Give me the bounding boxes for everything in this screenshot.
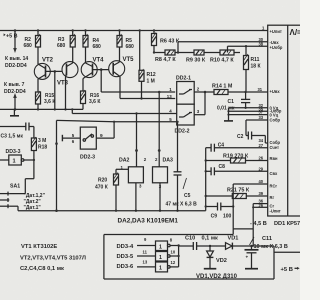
resistor R12	[139, 29, 156, 98]
capacitor C5	[166, 121, 198, 212]
IC DD1 pin numbers	[258, 26, 266, 208]
wire DD2-2 out riser	[194, 92, 205, 115]
inverter DD3-3	[0, 149, 35, 165]
wire VT2-VT3 base junction	[54, 70, 57, 109]
resistor R4	[83, 29, 101, 63]
wire W2 to DD2-1 pin13	[120, 97, 175, 99]
resistor R15	[36, 91, 57, 109]
resistor R10	[210, 50, 234, 63]
wire divider chain	[153, 51, 240, 53]
resistor R5	[117, 29, 134, 62]
capacitor C9	[205, 203, 235, 220]
sensor DA3	[153, 91, 173, 212]
transistor VT3	[57, 62, 78, 111]
wire -Uvh pin30 riser	[177, 42, 268, 54]
IC DD1 pin labels	[270, 29, 283, 214]
wire +5V output corner	[252, 246, 301, 279]
wire C4 group rail	[205, 148, 207, 211]
ground	[10, 109, 19, 115]
node Dat.2	[24, 199, 42, 205]
switch DD2-3	[62, 127, 103, 160]
inverter DD3-6	[117, 260, 179, 272]
capacitor C1	[217, 92, 250, 112]
resistor R6	[152, 29, 180, 52]
node +5V bottom label	[281, 267, 300, 273]
big box wire	[55, 120, 177, 210]
resistor R21	[206, 187, 268, 198]
resistor R16	[81, 90, 102, 109]
node Dat.1,2	[24, 193, 46, 199]
wire pin40	[233, 184, 268, 207]
label DA2,DA3 K1019EM1	[118, 217, 179, 224]
node K vyv.14 DD2-DD4 arrow	[5, 29, 28, 69]
resistor R14	[212, 83, 233, 94]
label C2,C4,C8 value	[20, 266, 64, 272]
wire DD3-3 to SA1	[9, 179, 34, 194]
switch DD2-1	[167, 76, 200, 105]
IC DD1 box	[268, 25, 302, 216]
transistor VT4	[81, 57, 109, 91]
node K vyv.7 DD2-DD4 arrow	[4, 82, 26, 111]
diode VD2	[204, 245, 227, 269]
wire DD3 output bus	[177, 244, 179, 267]
resistor R9	[186, 50, 206, 64]
transistor VT2	[34, 57, 62, 92]
wire DD2-1 out to pin31	[194, 91, 268, 94]
wire W3	[71, 108, 177, 115]
label VT2-VT5 type	[20, 255, 86, 261]
label VD1,VD2 D310	[196, 274, 238, 280]
capacitor C8	[206, 164, 268, 175]
resistor R11	[244, 46, 262, 91]
resistor R8	[155, 50, 176, 63]
resistor R3	[57, 29, 75, 63]
wire VT4-VT5 base junction	[100, 68, 103, 92]
resistor R20	[95, 169, 119, 210]
node Dat.1	[24, 205, 42, 211]
inverter DD3-5	[117, 249, 179, 261]
inverter DD3-4	[117, 237, 179, 251]
frame bottom box	[104, 229, 274, 279]
wire pin36	[253, 203, 268, 205]
label -4.5V and DD1 type	[250, 221, 314, 227]
wire pin32	[229, 107, 268, 109]
scan noise overlay	[0, 0, 1, 1]
switch SA1	[0, 183, 20, 208]
wire +5V top rail	[0, 30, 268, 32]
capacitor C11	[245, 236, 288, 269]
node +5V label	[2, 33, 18, 39]
wire +Uobr pin38	[228, 45, 268, 53]
ground near C1	[224, 108, 233, 121]
label VT1 type	[21, 244, 57, 250]
capacitor C3	[0, 123, 34, 140]
diode VD1	[210, 236, 252, 250]
wire bottom rail	[9, 206, 205, 212]
wire pin26	[252, 206, 268, 208]
resistor R19	[206, 154, 268, 163]
wire -4.5V path	[233, 204, 253, 246]
resistor R18	[31, 127, 47, 179]
transistor VT5	[109, 57, 134, 99]
capacitor C10	[179, 236, 218, 250]
wire W1 to DD2-1 pin1	[101, 91, 175, 93]
wire ground rail	[0, 108, 83, 110]
wire pin35	[227, 110, 267, 112]
wire pin37	[227, 114, 267, 116]
resistor R2	[24, 29, 41, 64]
wire DD2-3 out riser	[96, 121, 115, 139]
capacitor C4	[206, 142, 268, 151]
switch DD2-2	[169, 104, 200, 134]
capacitor C2 loop	[237, 120, 268, 143]
sensor DA2	[116, 114, 147, 212]
